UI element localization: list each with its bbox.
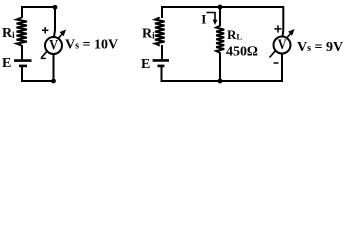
wire voltmeter top lead right circuit (282, 6, 285, 37)
svg-text:Vs = 10V: Vs = 10V (65, 38, 118, 53)
battery E long plate left circuit (14, 59, 32, 62)
voltmeter V2 needle arrow (270, 29, 295, 58)
wire top rail left circuit (22, 6, 55, 8)
wire bottom rail right circuit (161, 80, 282, 82)
junction dot top right circuit (218, 5, 223, 10)
junction dot bottom right circuit (218, 79, 223, 84)
battery E short plate right circuit (158, 65, 165, 68)
current arrow I elbow (207, 13, 218, 26)
wire voltmeter bottom lead right circuit (281, 54, 283, 83)
wire bottom rail left circuit (21, 80, 54, 82)
wire left branch upper (21, 6, 23, 18)
plus sign left voltmeter (42, 27, 48, 33)
minus sign left voltmeter (41, 57, 46, 59)
wire resistor to battery (21, 45, 23, 59)
wire battery to bottom rail right circuit (161, 67, 163, 82)
svg-text:E: E (2, 56, 11, 71)
wire load branch upper (219, 6, 221, 26)
voltmeter V1 needle arrow (42, 30, 67, 58)
resistor RL load (216, 26, 224, 53)
resistor Ri left circuit (17, 18, 27, 46)
junction dot top left circuit (53, 5, 58, 10)
battery E short plate left circuit (19, 65, 27, 68)
svg-text:E: E (141, 57, 150, 72)
svg-text:V: V (278, 37, 287, 53)
resistor Ri right circuit (155, 18, 165, 46)
svg-text:Vs = 9V: Vs = 9V (297, 40, 343, 55)
svg-text:I: I (201, 12, 206, 27)
wire left branch upper right circuit (161, 6, 163, 18)
svg-text:V: V (49, 37, 58, 53)
voltmeter V2 body right circuit (274, 37, 291, 54)
junction dot bottom left circuit (51, 79, 56, 84)
battery E long plate right circuit (153, 59, 169, 62)
minus sign right voltmeter (274, 62, 279, 64)
wire voltmeter bottom lead left circuit (53, 54, 55, 82)
wire voltmeter top lead left circuit (54, 6, 55, 37)
plus sign right voltmeter (274, 25, 281, 32)
wire load branch lower (219, 53, 221, 83)
svg-text:450Ω: 450Ω (226, 45, 258, 60)
wire top rail right circuit (162, 6, 283, 8)
voltmeter V1 body left circuit (45, 37, 62, 54)
wire battery to bottom rail (21, 67, 23, 82)
wire resistor to battery right circuit (161, 45, 163, 59)
